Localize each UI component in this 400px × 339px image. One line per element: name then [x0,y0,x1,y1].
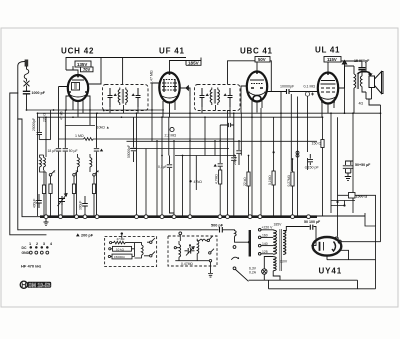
wire box2 bottom [175,235,209,261]
coil L7 horizontal [197,239,205,241]
IF transformer T1 dashed box [103,85,149,111]
wire v x96.5 + cap [94,113,99,216]
IF transformer T2 dashed box [195,85,241,111]
tube UCH42 [68,75,88,101]
wire UF41 top [170,58,202,73]
svg-text:3: 3 [76,170,78,174]
svg-text:25000pF: 25000pF [32,118,36,131]
wire left loop B [10,93,46,235]
wire hline y155 [175,155,236,157]
tube UF41 [159,73,180,103]
chassis symbol [44,219,49,226]
capacitor 15000pF [358,68,365,70]
wire v x182.5 [182,156,184,217]
switch contact box1 top [150,241,152,243]
node term 6 [135,215,139,219]
wire hline y148.5 [130,148,229,150]
svg-text:DC: DC [22,246,27,250]
node term 1 [44,215,48,219]
logo SM 10-53 [20,281,51,289]
svg-text:160: 160 [262,234,268,238]
potentiometer symbol [305,92,314,96]
svg-text:15 000pF: 15 000pF [354,59,370,63]
svg-text:115V: 115V [327,57,337,62]
padder caps [188,248,191,254]
wires UBC41 pins [241,72,318,217]
mains switch diagonal [236,270,249,282]
wire right elbow [365,213,376,289]
spark gap [24,81,29,91]
node term 10 [188,215,192,219]
switch contact box1 bottom [150,255,152,257]
trimmer capacitor [59,196,65,205]
caps 50 100uF [310,225,313,230]
wires UF41 pins [152,73,190,118]
svg-text:50V: 50V [258,57,266,62]
wire hline y113 long [38,112,382,114]
wire v x62 lower [62,172,85,216]
svg-text:390µF: 390µF [79,201,83,210]
node circle above box2 [179,232,182,235]
terminal row3 [108,255,110,257]
svg-text:4: 4 [97,170,99,174]
node mains junction [248,241,250,243]
svg-text:110V: 110V [280,260,288,264]
cap mark triangle [100,149,103,152]
wire v x196 [195,156,197,191]
svg-text:10000pF: 10000pF [280,85,295,89]
transformer heater winding [273,257,276,271]
cap 200pF [76,233,80,236]
wire v x58.5 + cap 18uF [56,87,61,217]
resistor 0,27M [291,172,294,186]
wire y230 long [18,229,219,231]
switch contact box2 top [207,239,209,241]
node term 3 [75,215,79,219]
transformer secondary winding [283,231,286,255]
wire v x252 [251,117,253,216]
svg-text:1500 Ω: 1500 Ω [356,194,368,198]
contact right box2 [209,260,211,262]
svg-text:HF 470 kHz: HF 470 kHz [21,263,41,268]
cap 2500uF [236,141,241,165]
node term 12 [226,215,230,219]
contact 3 [73,174,76,177]
node ant-cap [26,109,28,111]
resistor 5,1M [272,171,275,185]
wire T2 cap drops [202,105,230,117]
tube UL41 [318,73,338,104]
label box 50V [255,57,270,63]
wire left loop A [18,62,25,230]
node term 7 [144,215,148,219]
cap 500pF [220,227,223,233]
wire T1 feed [122,58,124,85]
tap 160 [258,236,261,239]
ground bus [40,215,317,218]
svg-text:50 µF: 50 µF [69,149,78,153]
wire jog y125 + cap [220,123,234,127]
wire UBC41 50V [256,62,258,72]
tap 140 [258,244,261,247]
wire box1 join [134,243,136,257]
svg-text:500 pF: 500 pF [211,223,224,227]
bus extension thin [317,215,365,217]
svg-text:150 Ω: 150 Ω [312,142,322,146]
svg-text:1 MΩ: 1 MΩ [75,134,84,138]
speaker [369,72,383,94]
IF T2 internals [200,88,233,108]
svg-text:0,2A: 0,2A [249,270,257,274]
wire v x168.8 [168,117,170,155]
label box 135V [75,61,91,67]
wire v x227.5 [227,110,229,216]
svg-text:47 kΩ: 47 kΩ [117,237,126,241]
node term 5 [95,215,99,219]
mains plug bar [249,230,251,257]
svg-text:400µF: 400µF [33,199,37,208]
svg-text:4Ω: 4Ω [359,102,364,106]
wire resistors to bus [51,194,95,217]
label box 115V [324,57,341,63]
node term 2 [59,215,63,219]
wire v x174 + cap 0,1uF [173,141,175,216]
coil L2b [44,155,46,170]
label 185V underline [186,60,201,65]
svg-text:2: 2 [54,170,56,174]
svg-text:1000 pF: 1000 pF [32,91,46,95]
svg-text:15000Ω: 15000Ω [114,255,125,259]
svg-text:185V: 185V [188,61,200,66]
svg-text:10kΩ ▲: 10kΩ ▲ [97,126,110,130]
cap on 4,7M line [218,164,223,170]
node term 15 [291,215,295,219]
node term 11 [218,215,222,219]
dial lamp [262,269,267,274]
resistor 22k [247,172,250,186]
svg-text:0,47 MΩ: 0,47 MΩ [150,70,154,84]
wire v x162 [161,117,163,216]
svg-text:UBC 41: UBC 41 [240,47,273,56]
capacitor 1000pF [24,91,30,94]
coil L4 [90,154,92,172]
resistor 10k box [113,246,132,251]
tap 125 [258,253,261,256]
cap 400uF [36,194,42,208]
svg-text:2500µF: 2500µF [233,154,237,165]
svg-text:47 kΩ: 47 kΩ [60,111,64,120]
osc coil L5 [176,241,180,261]
resistor r2c [92,184,95,194]
svg-text:0,1µF: 0,1µF [158,165,167,169]
transformer core [280,229,281,271]
svg-text:UF 41: UF 41 [159,47,185,56]
cap 50000pF [131,117,136,162]
wire v x322.5 [322,117,324,216]
svg-text:0,1MΩ: 0,1MΩ [268,175,272,185]
svg-text:1 2 3 4: 1 2 3 4 [29,242,54,246]
caps 50+50uF [343,161,353,173]
wire v x190 [189,96,191,216]
node term 13 [248,215,252,219]
svg-text:⊙150 pF: ⊙150 pF [305,166,320,170]
svg-text:10 kΩ: 10 kΩ [116,247,125,251]
label box 70V [81,67,94,72]
wire v x233.8 [231,113,236,216]
wire v x37.5 [37,113,39,216]
svg-text:0,1 MΩ: 0,1 MΩ [304,85,316,89]
wire v x215 [214,141,216,156]
coil L2a [40,155,46,172]
wire UL41 115V [327,62,329,73]
node term 9 [172,215,176,219]
tap 220 [258,229,261,232]
capacitor 10000pF [287,89,290,94]
wire v x205 [204,117,206,155]
wire 500pF to mains [222,230,250,242]
node term 8 [160,215,164,219]
wire T1 cap drops [110,105,138,113]
ferrite bead symbol [296,151,299,157]
svg-text:50+50 µF: 50+50 µF [355,163,371,167]
rectifier tube UY41 [311,237,341,256]
svg-text:22 kΩ: 22 kΩ [243,177,247,186]
wire v x152 [151,110,153,141]
resistor 47k zigzag [112,235,135,244]
junction dots [37,109,382,160]
resistor 150 Ohm [321,140,324,148]
node term 4 [83,215,87,219]
cap 350uF [308,154,313,165]
antenna terminal [25,60,29,67]
node d2 [343,204,345,206]
wire v x50.5 [50,110,52,140]
svg-text:+220 V: +220 V [262,226,274,230]
svg-text:GND: GND [22,251,30,255]
node term 16 [307,215,311,219]
svg-text:4,7MΩ: 4,7MΩ [215,174,219,184]
svg-text:135V: 135V [77,62,87,67]
node d1 [336,201,338,203]
ground 50+50 [345,173,351,181]
wire 115V to output [341,61,362,72]
resistor 47k dot [189,180,191,182]
svg-text:0,27MΩ: 0,27MΩ [287,174,291,186]
wire UBC41 loop [228,61,272,92]
wire v x65.3 + cap 50uF [63,110,68,196]
node above box1 [121,232,123,234]
svg-text:50000pF: 50000pF [127,145,131,158]
antenna coil L1 [24,67,29,82]
transformer primary winding [273,230,276,254]
svg-text:50 100 µF: 50 100 µF [304,220,321,224]
wire v x380 [380,105,382,242]
wire v x46 lower [45,172,47,216]
wire heater bottom [273,271,280,281]
resistor 4,7M [219,170,222,184]
svg-text:47kΩ: 47kΩ [194,180,203,184]
svg-text:SM 10-53: SM 10-53 [29,283,51,289]
osc coil L6 [197,239,199,261]
IF T1 cap 1 [108,88,141,108]
oscillator box 2 dashed [168,236,217,266]
wire v x353 [352,113,354,213]
svg-text:UCH 42: UCH 42 [61,47,94,56]
tone cap arrow [358,71,373,76]
svg-text:0,47MΩ: 0,47MΩ [181,262,193,266]
wire h y125.5 [65,125,95,127]
svg-text:185V: 185V [274,222,283,226]
cap 390uF [82,196,88,210]
svg-text:UY41: UY41 [319,267,343,276]
svg-text:200 pF: 200 pF [81,233,94,237]
svg-text:70V: 70V [83,67,91,72]
terminal row2 [109,248,111,250]
wire hline y117 long [38,116,323,118]
wire v x241.3 [240,113,242,156]
tube UBC41 [247,72,267,102]
osc coil 1 [135,243,144,258]
wire v x157 [156,141,158,216]
svg-text:UL 41: UL 41 [315,46,340,55]
wire v x291.3 [290,94,292,171]
wire bottom y285.5 [269,280,376,289]
wire top rail 135V [66,58,101,71]
wire hline y141 [127,140,318,142]
resistor r2a [49,184,52,194]
wire v x136.5 [136,113,138,216]
contact 2 [49,174,52,177]
resistor 2,2M circle [170,127,174,131]
svg-text:18 µF: 18 µF [48,149,57,153]
resistor 15k box [112,254,132,259]
wire v x146 [145,149,147,217]
wires UY41 [327,242,381,260]
wire speaker return [366,62,381,105]
wire transformer top to rectifier [283,227,316,246]
wire v x261 [260,108,262,216]
wire left x22 [18,119,40,217]
cap 27000 + wire [37,117,42,139]
output transformer [345,66,367,113]
wires UL41 pins [322,60,347,117]
wire hline y110 [27,109,165,111]
svg-text:125: 125 [262,250,268,254]
wire h y139.6 short [39,139,50,141]
wire v x344.5 [344,66,346,113]
wire y200 [331,117,355,236]
resistor r2b [72,184,75,194]
svg-text:140: 140 [262,242,268,246]
wire h y139 + resistor 1M zigzag [59,138,234,141]
svg-text:2,2 MΩ: 2,2 MΩ [165,134,177,138]
wire top long 57 [101,57,186,59]
node term 14 [258,215,262,219]
wire v x46 [45,117,47,157]
oscillator box 1 dashed [105,237,157,267]
contact 4 [93,174,96,177]
wire lamp to winding [264,257,273,281]
wire contacts down [51,176,95,184]
resistor 1500 [349,193,356,199]
wires UCH42 pins [59,66,102,125]
wire antenna down [26,94,28,110]
resistor r2d [42,185,45,194]
wire v x307 [307,96,309,170]
coil L3 [78,154,80,172]
wire v x275.5 [273,117,275,171]
switch contact box2 mid [209,252,211,254]
mains terminal mid [233,246,236,249]
wire v x297.5 [297,97,299,217]
wire bottom y282 [249,280,358,289]
terminal L5 top [174,247,176,249]
terminal row1 [110,242,112,244]
chassis box2 [208,274,213,278]
mains terminal bottom [233,267,236,270]
voltage selector arc [231,257,237,260]
power supply section [231,225,375,289]
